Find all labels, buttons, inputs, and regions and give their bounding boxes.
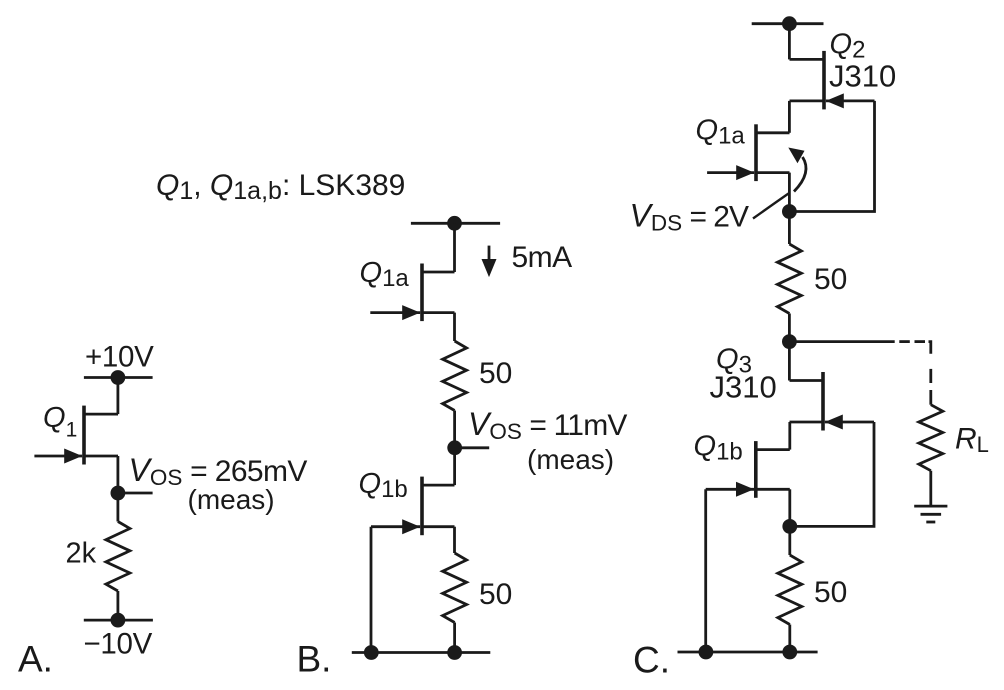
wire RL to ground bbox=[929, 471, 932, 506]
label J310 (Q3) bbox=[710, 370, 777, 405]
node -10V junction (A) bbox=[111, 613, 126, 628]
annotation arrow Vds bbox=[788, 148, 806, 192]
label 50 upper (B) bbox=[479, 357, 512, 390]
label Q1b (B) bbox=[359, 468, 408, 503]
svg-text:J310: J310 bbox=[710, 370, 777, 405]
wire source of Q1 down to node bbox=[117, 456, 120, 493]
svg-text:(meas): (meas) bbox=[188, 484, 275, 515]
node top rail junction (B) bbox=[447, 216, 462, 231]
wire source of Q1b to node (C) bbox=[788, 489, 791, 526]
label Q1a (C) bbox=[696, 115, 746, 150]
resistor 50 lower (B) bbox=[443, 553, 467, 623]
wire Vos stub (A) bbox=[118, 492, 153, 495]
wire node to resistor 50 upper (C) bbox=[788, 212, 791, 245]
wire output dashed segment bbox=[899, 342, 931, 383]
svg-text:(meas): (meas) bbox=[527, 444, 614, 475]
wire gate of Q1b to ground rail (B) bbox=[370, 527, 373, 653]
label Vos = 11mV bbox=[468, 406, 627, 444]
node gate junction bottom (B) bbox=[364, 645, 379, 660]
wire gate of Q3 box bbox=[790, 422, 874, 526]
transistor Q1a (B) bbox=[370, 264, 454, 322]
node gate junction bottom (C) bbox=[699, 645, 714, 660]
svg-text:5mA: 5mA bbox=[512, 241, 573, 274]
wire +10V rail (A) bbox=[84, 376, 153, 379]
svg-text:50: 50 bbox=[814, 576, 847, 609]
svg-text:−10V: −10V bbox=[84, 628, 153, 661]
node source of Q1b (C) bbox=[782, 519, 797, 534]
resistor RL bbox=[919, 405, 943, 471]
wire drain of Q1 to +10V bbox=[117, 378, 120, 415]
svg-text:J310: J310 bbox=[829, 59, 896, 94]
wire source of Q1a to resistor (B) bbox=[453, 313, 456, 341]
wire output node to drain of Q3 bbox=[788, 342, 791, 381]
svg-text:50: 50 bbox=[814, 263, 847, 296]
label J310 (Q2) bbox=[829, 59, 896, 94]
node Vos (B) bbox=[447, 440, 462, 455]
wire gate of Q2 box bbox=[789, 101, 874, 212]
label Q1 bbox=[43, 402, 77, 442]
label Q1a (B) bbox=[360, 257, 410, 292]
svg-text:50: 50 bbox=[479, 357, 512, 390]
transistor Q1b (B) bbox=[371, 477, 455, 536]
label 50 lower (C) bbox=[814, 576, 847, 609]
node source junction bottom (B) bbox=[447, 645, 462, 660]
svg-text:50: 50 bbox=[479, 578, 512, 611]
label 50 lower (B) bbox=[479, 578, 512, 611]
wire bottom rail (C) bbox=[678, 651, 818, 654]
wire -10V rail (A) bbox=[84, 619, 153, 622]
node source of Q1a / gate of Q2 bbox=[782, 204, 797, 219]
label Vos = 265mV bbox=[129, 452, 308, 490]
transistor Q2 (J310, mirrored) bbox=[790, 51, 875, 110]
svg-text:+10V: +10V bbox=[85, 341, 154, 374]
wire top rail (C) bbox=[752, 22, 824, 25]
wire resistor 2k to -10V bbox=[117, 591, 120, 620]
wire node to resistor 50 lower (C) bbox=[788, 526, 791, 555]
wire drain of Q2 to rail bbox=[788, 24, 791, 60]
label 50 upper (C) bbox=[814, 263, 847, 296]
wire Vos node to drain of Q1b bbox=[453, 448, 456, 485]
wire top rail (B) bbox=[411, 222, 500, 225]
wire bottom rail (B) bbox=[352, 651, 491, 654]
label (meas) A bbox=[188, 484, 275, 515]
wire gate of Q1b to rail (C) bbox=[704, 489, 707, 652]
label 5mA bbox=[512, 241, 573, 274]
node source junction bottom (C) bbox=[782, 645, 797, 660]
annotation pointer line Vds bbox=[753, 194, 789, 219]
ground symbol bbox=[914, 506, 947, 522]
label Q1b (C) bbox=[694, 431, 743, 466]
label C. bbox=[633, 640, 670, 681]
wire source of Q1a to node (C) bbox=[788, 173, 791, 212]
transistor Q1a (C) bbox=[707, 124, 789, 181]
wire node to resistor 2k bbox=[117, 493, 120, 522]
label Q1, Q1a,b: LSK389 bbox=[156, 169, 405, 205]
wire source of Q2 to drain of Q1a bbox=[788, 101, 791, 133]
label 2k bbox=[66, 537, 97, 569]
transistor Q1 (JFET) bbox=[34, 406, 118, 465]
label (meas) B bbox=[527, 444, 614, 475]
node output (C) bbox=[782, 334, 797, 349]
svg-text:2k: 2k bbox=[66, 537, 97, 569]
label Q3 bbox=[716, 344, 752, 379]
label RL bbox=[955, 423, 989, 458]
wire resistor to rail (C) bbox=[788, 625, 791, 653]
node +10V junction (A) bbox=[111, 370, 126, 385]
label A. bbox=[18, 639, 53, 680]
node top rail junction (C) bbox=[782, 16, 797, 31]
node Vos measurement (A) bbox=[111, 486, 126, 501]
resistor 50 upper (B) bbox=[443, 341, 467, 411]
wire resistor to rail (B) bbox=[453, 623, 456, 653]
resistor 50 lower (C) bbox=[778, 555, 802, 625]
label +10V (supply) bbox=[85, 341, 154, 374]
wire resistor to output node (C) bbox=[788, 314, 791, 342]
wire output node solid segment bbox=[789, 340, 894, 343]
wire drain of Q1a to rail (B) bbox=[453, 223, 456, 272]
wire source of Q1b to resistor (B) bbox=[453, 527, 456, 553]
label Q2 bbox=[830, 29, 866, 64]
svg-text:C.: C. bbox=[633, 640, 670, 681]
wire dashed to RL bbox=[929, 390, 932, 405]
wire Vos stub (B) bbox=[455, 446, 490, 449]
label Vds = 2V bbox=[630, 198, 749, 236]
resistor 50 upper (C) bbox=[777, 244, 801, 314]
transistor Q1b (C) bbox=[706, 441, 790, 498]
current arrow 5mA bbox=[482, 246, 497, 278]
svg-text:VDS = 2V: VDS = 2V bbox=[630, 198, 749, 236]
transistor Q3 (J310, mirrored) bbox=[790, 372, 875, 431]
label -10V (supply) bbox=[84, 628, 153, 661]
label B. bbox=[297, 639, 332, 680]
resistor 2k bbox=[106, 522, 130, 592]
svg-text:B.: B. bbox=[297, 639, 332, 680]
wire source of Q3 to drain of Q1b bbox=[788, 422, 791, 450]
wire resistor to Vos node (B) bbox=[453, 411, 456, 448]
svg-text:A.: A. bbox=[18, 639, 53, 680]
